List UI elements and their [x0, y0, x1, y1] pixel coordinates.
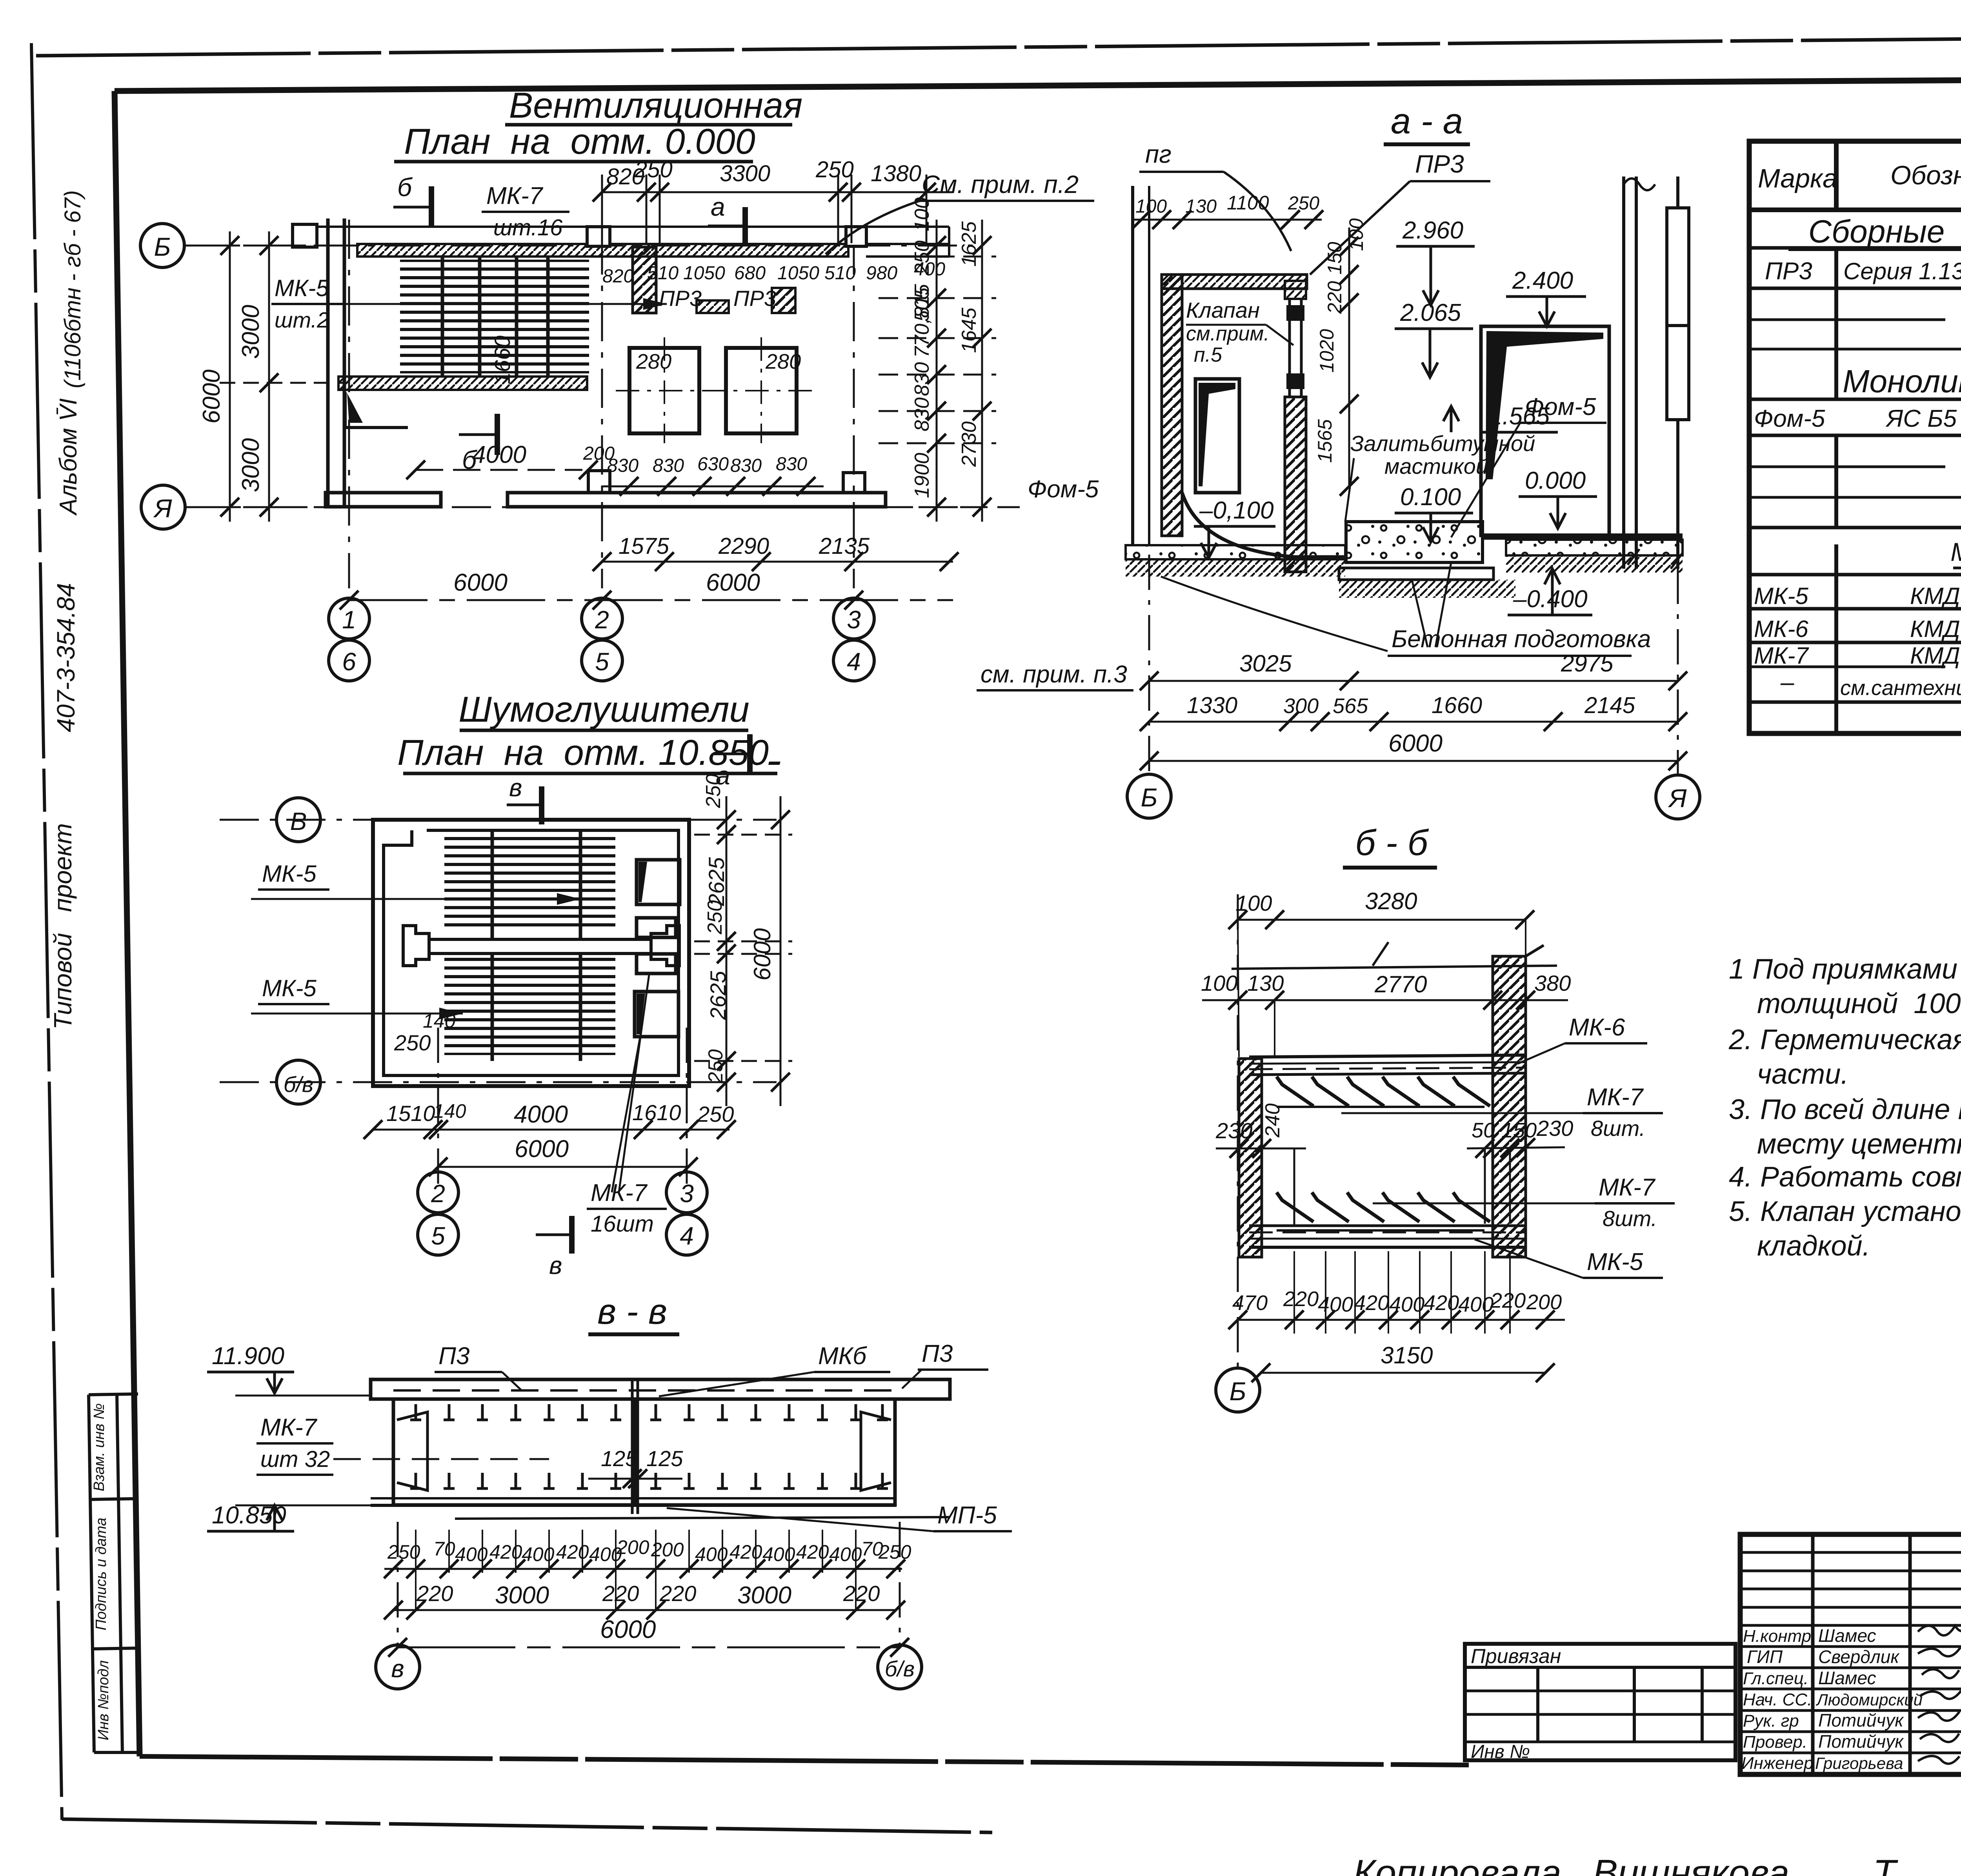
svg-text:3000: 3000 — [237, 305, 264, 359]
svg-text:2135: 2135 — [819, 533, 870, 559]
svg-text:Я: Я — [1668, 784, 1687, 813]
svg-text:830: 830 — [776, 454, 807, 475]
svg-text:Рук. гр: Рук. гр — [1743, 1711, 1799, 1730]
svg-text:280: 280 — [765, 350, 801, 373]
pit center lines — [664, 337, 665, 443]
svg-text:Марка: Марка — [1758, 164, 1837, 193]
axis line V — [220, 819, 777, 821]
table outer box — [1749, 141, 1961, 733]
svg-text:200: 200 — [1526, 1290, 1562, 1314]
svg-text:820: 820 — [602, 266, 634, 287]
svg-text:ПР3: ПР3 — [1415, 150, 1464, 178]
ground line right of door — [1481, 533, 1683, 540]
svg-text:1660: 1660 — [490, 335, 515, 384]
v-v axis circles — [397, 1522, 399, 1647]
svg-text:Клапан: Клапан — [1186, 298, 1260, 322]
svg-text:кладкой.: кладкой. — [1757, 1230, 1870, 1262]
right thick wall hatched — [1493, 956, 1526, 1257]
svg-text:б - б: б - б — [1355, 823, 1429, 863]
svg-text:3000: 3000 — [495, 1582, 549, 1609]
left wall double line — [293, 218, 949, 507]
svg-text:Металлоконструкции: Металлоконструкции — [1950, 537, 1961, 566]
ground hatch under floor — [1339, 580, 1515, 598]
svg-text:Взам. инв №: Взам. инв № — [91, 1403, 107, 1491]
svg-text:6000: 6000 — [198, 369, 225, 424]
svg-text:1510: 1510 — [386, 1101, 435, 1126]
svg-text:400: 400 — [695, 1543, 728, 1565]
svg-text:3000: 3000 — [737, 1582, 791, 1609]
bottom dim rows silencers — [373, 1129, 729, 1131]
svg-text:420: 420 — [1424, 1291, 1459, 1315]
row lines — [1749, 246, 1961, 250]
svg-text:КМД л.12: КМД л.12 — [1910, 583, 1961, 609]
svg-text:1645: 1645 — [958, 307, 980, 353]
right wall double lines — [1622, 177, 1625, 569]
svg-text:407-3-354.84: 407-3-354.84 — [52, 583, 80, 732]
svg-text:Инв №подл: Инв №подл — [95, 1660, 112, 1740]
svg-text:Б: Б — [1141, 783, 1158, 812]
grille vertical rods — [491, 832, 494, 1061]
svg-text:МК-5: МК-5 — [262, 861, 317, 887]
dim row 6000 6000 — [349, 599, 953, 601]
svg-text:шт 32: шт 32 — [260, 1447, 330, 1472]
axis line A (horizontal) — [185, 506, 973, 508]
svg-text:Н.контр: Н.контр — [1743, 1627, 1811, 1646]
LEFT MARGIN rotated inventory strip — [89, 1394, 140, 1752]
svg-text:КМД л.2: КМД л.2 — [1910, 616, 1961, 642]
svg-text:в: в — [549, 1251, 562, 1279]
wall window opening — [1195, 379, 1239, 493]
svg-text:Фом-5: Фом-5 — [1525, 393, 1596, 420]
svg-text:5: 5 — [431, 1222, 445, 1250]
section mark b lower — [495, 414, 500, 455]
svg-text:420: 420 — [796, 1541, 829, 1563]
axis circle V — [277, 798, 320, 842]
axis line b/v — [220, 1081, 777, 1083]
svg-text:толщиной 100мм из бетона М: толщиной 100мм из бетона М-100. — [1757, 988, 1961, 1019]
svg-text:2730: 2730 — [958, 421, 980, 467]
svg-text:(1106бтн - гб - 67): (1106бтн - гб - 67) — [60, 190, 85, 388]
svg-text:Обозначение: Обозначение — [1890, 160, 1961, 190]
svg-text:140: 140 — [423, 1010, 456, 1032]
svg-text:ЯС Б5: ЯС Б5 — [1885, 405, 1957, 432]
axis circle A — [141, 485, 185, 529]
svg-text:МК-7: МК-7 — [1587, 1084, 1644, 1111]
bottom wall strip left — [326, 493, 441, 507]
svg-text:770,815: 770,815 — [911, 284, 933, 358]
svg-text:Фом-5: Фом-5 — [1754, 405, 1825, 432]
right dim chain of silencers plan — [694, 796, 792, 1106]
plan dimensions: vertical chain 6000 left — [220, 231, 357, 522]
svg-text:0.000: 0.000 — [1525, 467, 1586, 494]
svg-text:220: 220 — [416, 1581, 453, 1606]
svg-text:пг: пг — [1145, 140, 1172, 168]
a-a axis circle A — [1656, 775, 1700, 819]
svg-text:2.960: 2.960 — [1402, 217, 1463, 244]
pryamok curve — [1182, 493, 1346, 557]
svg-text:а - а: а - а — [1391, 101, 1463, 141]
svg-text:510: 510 — [824, 263, 856, 284]
b-b top dim row 100 3280 — [1238, 919, 1526, 921]
svg-text:4000: 4000 — [472, 441, 526, 468]
svg-text:П3: П3 — [438, 1343, 469, 1370]
svg-text:Григорьева: Григорьева — [1815, 1754, 1903, 1772]
name rows — [1740, 1645, 1961, 1648]
svg-text:565: 565 — [1333, 694, 1368, 718]
axis bubble 1 — [329, 598, 369, 639]
left outer wall line — [1131, 186, 1134, 545]
svg-text:125: 125 — [646, 1446, 683, 1471]
svg-text:2625: 2625 — [706, 971, 730, 1020]
svg-text:см.сантехнические черт.: см.сантехнические черт. — [1840, 676, 1961, 700]
section mark v bottom — [569, 1216, 575, 1254]
svg-text:–0,100: –0,100 — [1199, 497, 1274, 524]
svg-text:Свердлик: Свердлик — [1818, 1647, 1900, 1667]
svg-text:мастикой: мастикой — [1384, 454, 1488, 479]
svg-text:МК-5: МК-5 — [1754, 583, 1808, 609]
central beam with T ends — [403, 926, 679, 966]
svg-text:1 Под приямками выполнить: 1 Под приямками выполнить бетонную подго… — [1729, 953, 1961, 985]
bubbles 2/5 — [418, 1172, 458, 1213]
svg-text:3280: 3280 — [1365, 888, 1417, 914]
svg-text:4. Работать совместно с листо: 4. Работать совместно с листом 47. — [1729, 1161, 1961, 1193]
svg-text:400: 400 — [455, 1543, 488, 1565]
svg-text:6000: 6000 — [600, 1615, 656, 1643]
top louvre blades — [1277, 1077, 1490, 1107]
svg-text:16шт: 16шт — [591, 1211, 654, 1237]
svg-text:Потийчук: Потийчук — [1818, 1710, 1904, 1730]
svg-text:8шт.: 8шт. — [1591, 1116, 1645, 1141]
svg-text:250: 250 — [702, 774, 725, 808]
svg-text:Монолитные бетонные конструк: Монолитные бетонные конструкции — [1843, 364, 1961, 399]
svg-text:400: 400 — [829, 1543, 862, 1565]
inner top border — [115, 77, 1961, 91]
privyazan block — [1465, 1644, 1735, 1760]
column lines body lower — [1834, 544, 1838, 733]
svg-text:Вентиляционная: Вентиляционная — [509, 86, 803, 126]
svg-text:6000: 6000 — [1388, 730, 1443, 757]
v-v bottom dim chain row1 — [416, 1530, 856, 1610]
end wedges — [397, 1412, 427, 1490]
side channels right: 4 openings — [635, 860, 680, 1037]
svg-text:2.400: 2.400 — [1512, 267, 1573, 294]
svg-text:400: 400 — [1389, 1293, 1424, 1316]
bottom wall strip right — [508, 493, 886, 507]
svg-text:1900: 1900 — [911, 453, 933, 498]
svg-text:5: 5 — [595, 648, 609, 676]
table header bottom line — [1749, 207, 1961, 212]
svg-text:400: 400 — [762, 1543, 795, 1565]
lintel PR3 right — [772, 288, 795, 313]
svg-text:6000: 6000 — [706, 569, 760, 596]
svg-text:см.прим.: см.прим. — [1186, 322, 1270, 345]
section mark a bottom — [747, 734, 753, 773]
svg-text:250: 250 — [704, 900, 726, 935]
silencers column lines — [437, 1028, 439, 1185]
svg-text:2. Герметическая дверь учтен: 2. Герметическая дверь учтена в сантехни… — [1728, 1024, 1961, 1055]
small block right bottom — [843, 473, 865, 493]
svg-text:МК-7: МК-7 — [1599, 1174, 1656, 1201]
svg-text:Шамес: Шамес — [1818, 1625, 1876, 1646]
svg-text:220: 220 — [1490, 1289, 1526, 1312]
svg-text:1380: 1380 — [871, 161, 921, 186]
svg-text:250: 250 — [878, 1541, 911, 1563]
small block on line2 bottom — [588, 471, 610, 493]
svg-text:МП-5: МП-5 — [937, 1502, 997, 1529]
svg-text:1625: 1625 — [958, 221, 980, 267]
left ground — [1126, 545, 1345, 559]
bottom hook rows — [410, 1473, 888, 1488]
foundation pit square left — [629, 348, 699, 433]
v-v dim row2 — [393, 1609, 896, 1611]
column line 1 (vertical dash-dot) — [348, 220, 350, 588]
section mark b top — [429, 186, 434, 227]
svg-text:Типовой проект: Типовой проект — [49, 823, 77, 1030]
svg-text:4: 4 — [680, 1222, 694, 1250]
svg-text:Гл.спец.: Гл.спец. — [1743, 1669, 1808, 1688]
left thin wall hatched — [1239, 1059, 1262, 1257]
svg-text:250: 250 — [1288, 193, 1319, 214]
svg-text:630: 630 — [697, 454, 729, 475]
svg-text:830: 830 — [911, 397, 933, 431]
svg-text:Я: Я — [153, 494, 173, 523]
svg-text:300: 300 — [1283, 694, 1319, 718]
svg-text:2625: 2625 — [704, 857, 729, 906]
svg-text:Сборные железобетонные издел: Сборные железобетонные изделия — [1808, 214, 1961, 249]
column line 2 — [601, 235, 603, 588]
svg-text:МК-6: МК-6 — [1754, 616, 1808, 642]
svg-text:3000: 3000 — [237, 438, 264, 492]
svg-text:830: 830 — [911, 362, 933, 396]
svg-text:2975: 2975 — [1561, 650, 1614, 677]
axis bubble 5 — [582, 640, 622, 681]
lintel small hatched above — [1285, 281, 1306, 299]
inner bottom border — [140, 1756, 1469, 1765]
svg-text:Фом-5: Фом-5 — [1028, 476, 1099, 503]
svg-text:Провер.: Провер. — [1743, 1732, 1807, 1752]
svg-text:План на отм. 0.000: План на отм. 0.000 — [404, 122, 755, 162]
svg-text:830: 830 — [730, 455, 762, 476]
svg-text:3. По всей длине приямка выпол: 3. По всей длине приямка выполнить округ… — [1729, 1094, 1961, 1125]
svg-text:1330: 1330 — [1187, 693, 1237, 718]
svg-text:2145: 2145 — [1584, 693, 1635, 718]
signature grid verticals — [1811, 1534, 1815, 1774]
middle pier hatched lower — [1285, 397, 1306, 572]
svg-text:420: 420 — [556, 1541, 589, 1563]
middle wall hatched band — [338, 377, 587, 390]
top grate plate lines — [1249, 1055, 1526, 1075]
svg-text:–: – — [1780, 669, 1794, 696]
svg-text:125: 125 — [601, 1446, 638, 1471]
svg-text:Людомирский: Людомирский — [1815, 1690, 1923, 1709]
b-b dim extension verticals — [1238, 920, 1239, 1057]
column block at line 2 top — [587, 227, 610, 246]
svg-text:420: 420 — [489, 1541, 522, 1563]
svg-text:400: 400 — [1458, 1293, 1493, 1316]
svg-text:4000: 4000 — [514, 1101, 568, 1128]
svg-text:6000: 6000 — [749, 928, 775, 981]
top slab hatched — [1162, 275, 1307, 289]
svg-text:МК-7: МК-7 — [260, 1414, 318, 1441]
v-v dim row3 6000 — [398, 1647, 900, 1649]
column line 3 — [853, 235, 855, 588]
svg-text:510: 510 — [647, 263, 679, 284]
svg-text:3: 3 — [847, 606, 861, 634]
svg-text:220: 220 — [602, 1581, 639, 1606]
svg-text:ПР3: ПР3 — [1765, 258, 1812, 285]
grille bars field — [400, 260, 589, 373]
right column blocks — [1667, 208, 1689, 326]
svg-text:100: 100 — [1235, 891, 1272, 915]
svg-text:420: 420 — [1354, 1291, 1389, 1315]
svg-text:МК-5: МК-5 — [275, 275, 329, 301]
top hook rows — [410, 1404, 888, 1420]
left wall hatched — [1162, 275, 1182, 536]
svg-text:6000: 6000 — [515, 1135, 569, 1163]
svg-text:830: 830 — [653, 455, 684, 476]
svg-text:2: 2 — [431, 1179, 445, 1208]
svg-text:3300: 3300 — [720, 161, 770, 186]
svg-text:230: 230 — [1536, 1116, 1573, 1141]
svg-text:1050: 1050 — [683, 263, 725, 284]
klapan device double lines — [1288, 299, 1291, 397]
svg-text:Потийчук: Потийчук — [1818, 1731, 1904, 1752]
a-a axis circle B — [1148, 494, 1150, 775]
break marks top right — [1624, 178, 1655, 190]
svg-text:100: 100 — [1135, 196, 1167, 217]
axis circle b/v — [277, 1060, 320, 1104]
top dim row of a-a: 100 130 1100 250 — [1133, 219, 1322, 221]
svg-text:2: 2 — [595, 606, 609, 634]
svg-text:280: 280 — [636, 350, 671, 373]
right silencer box — [636, 1399, 895, 1505]
top wall hatched band — [357, 244, 848, 257]
svg-text:3150: 3150 — [1381, 1342, 1433, 1368]
svg-text:Шамес: Шамес — [1818, 1668, 1876, 1688]
svg-text:680: 680 — [734, 263, 766, 284]
svg-text:Подпись и дата: Подпись и дата — [93, 1518, 109, 1630]
svg-text:3025: 3025 — [1239, 650, 1292, 677]
svg-text:МК-7: МК-7 — [486, 182, 544, 209]
svg-text:250: 250 — [815, 157, 854, 182]
lintel PR3 left — [697, 300, 729, 313]
svg-text:ПР3: ПР3 — [733, 286, 776, 311]
axis bubble 4 — [833, 640, 874, 681]
svg-text:Б: Б — [154, 232, 171, 261]
svg-text:2770: 2770 — [1374, 971, 1427, 997]
svg-text:ГИП: ГИП — [1747, 1647, 1783, 1667]
svg-text:1610: 1610 — [632, 1100, 681, 1125]
svg-text:200: 200 — [616, 1536, 649, 1558]
top-left corner block — [293, 224, 317, 247]
svg-text:П3: П3 — [922, 1340, 953, 1367]
section mark a top — [742, 207, 748, 245]
door leaf with dark wedge — [1481, 326, 1609, 535]
axis bubble 6 — [329, 640, 369, 681]
svg-text:1100: 1100 — [1227, 192, 1269, 214]
inner casing rect — [384, 830, 679, 1075]
svg-text:шт.16: шт.16 — [493, 215, 563, 240]
svg-text:1575: 1575 — [618, 533, 669, 559]
grille vertical rods — [442, 257, 548, 376]
outer casing rect — [373, 820, 689, 1086]
svg-text:6: 6 — [342, 648, 356, 676]
b-b bottom dim chain — [1294, 1251, 1510, 1334]
outer bottom border — [62, 1819, 992, 1832]
b-b break line top — [1373, 942, 1388, 966]
svg-text:части.: части. — [1757, 1059, 1848, 1090]
left silencer box — [393, 1399, 633, 1505]
svg-text:3: 3 — [680, 1179, 694, 1208]
svg-text:Альбом V̄I: Альбом V̄I — [55, 398, 82, 516]
svg-text:220: 220 — [843, 1581, 880, 1606]
section mark v top — [539, 786, 544, 824]
svg-text:5. Клапан установить одновреме: 5. Клапан установить одновременно с кирп… — [1729, 1196, 1961, 1227]
svg-text:Инженер: Инженер — [1741, 1754, 1814, 1773]
svg-text:250: 250 — [387, 1541, 420, 1563]
bottom grate plate lines — [1249, 1226, 1526, 1247]
column lines body mid — [1834, 435, 1838, 528]
signature squiggles — [1918, 1626, 1961, 1764]
svg-text:6000: 6000 — [453, 569, 508, 596]
svg-text:План на отм. ـ10.850: План на отм. ـ10.850 — [397, 733, 780, 773]
svg-text:В: В — [290, 807, 307, 835]
svg-text:месту цементным раствором по: месту цементным раствором по бетонной по… — [1757, 1128, 1961, 1160]
svg-text:0.100: 0.100 — [1400, 484, 1461, 511]
svg-text:400: 400 — [522, 1543, 555, 1565]
svg-text:2.065: 2.065 — [1400, 299, 1461, 326]
axis line B (horizontal) — [184, 245, 973, 247]
svg-text:130: 130 — [1185, 196, 1217, 217]
svg-text:1565: 1565 — [1314, 419, 1336, 463]
svg-text:ПР3: ПР3 — [659, 286, 702, 311]
axis bubble 3 — [833, 598, 874, 639]
bottom plates — [371, 1497, 896, 1499]
svg-text:шт.2: шт.2 — [275, 308, 329, 332]
svg-text:250: 250 — [697, 1102, 734, 1126]
bottom dim rows of a-a — [1149, 680, 1678, 682]
table column lines — [1834, 141, 1839, 210]
svg-text:в: в — [391, 1654, 404, 1683]
svg-text:в - в: в - в — [597, 1292, 667, 1332]
svg-text:МК-5: МК-5 — [262, 975, 317, 1001]
svg-text:11.900: 11.900 — [212, 1343, 284, 1370]
svg-text:а: а — [711, 192, 725, 221]
svg-text:Шумоглушители: Шумоглушители — [458, 690, 749, 730]
column block at line 3 top — [846, 227, 866, 246]
svg-text:50: 50 — [1472, 1119, 1495, 1142]
svg-text:400: 400 — [1318, 1293, 1353, 1316]
svg-text:420: 420 — [729, 1541, 762, 1563]
right vertical dim chains of plan — [879, 220, 996, 522]
svg-text:250: 250 — [704, 1049, 727, 1084]
svg-text:б/в: б/в — [885, 1656, 915, 1681]
svg-text:100: 100 — [1201, 971, 1237, 995]
svg-text:б: б — [397, 173, 413, 202]
svg-text:1: 1 — [342, 606, 356, 634]
right pier hatched — [633, 247, 656, 313]
svg-text:250: 250 — [634, 157, 673, 182]
svg-text:70: 70 — [433, 1538, 455, 1560]
grille field lower — [444, 957, 615, 1055]
column lines body upper — [1834, 248, 1838, 399]
svg-text:МК-5: МК-5 — [1587, 1248, 1643, 1276]
svg-text:4: 4 — [847, 648, 861, 676]
svg-text:см. прим. п.3: см. прим. п.3 — [980, 661, 1127, 688]
b-b second dim row 100 130 2770 380 — [1202, 999, 1568, 1001]
svg-text:2290: 2290 — [718, 533, 769, 559]
svg-text:8шт.: 8шт. — [1603, 1206, 1657, 1231]
